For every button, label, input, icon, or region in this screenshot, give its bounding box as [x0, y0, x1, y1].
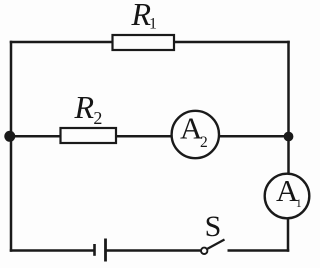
wire right upper vertical (top corner to node B): [287, 41, 290, 136]
svg-text:R: R: [74, 89, 95, 125]
wire right middle vertical (node B to ammeter A1): [287, 136, 290, 175]
switch S blade: [207, 240, 225, 250]
svg-text:2: 2: [93, 108, 102, 128]
resistor R1: [113, 35, 175, 50]
node A (left junction dot): [4, 131, 15, 142]
wire top horizontal: [10, 41, 290, 44]
wire bottom right (switch to corner): [228, 249, 290, 252]
wire middle branch left (node A to ammeter A2): [11, 135, 172, 138]
battery cell (short negative plate): [93, 244, 96, 256]
node B (right junction dot): [284, 132, 294, 142]
battery cell (long positive plate): [104, 239, 107, 262]
ammeter A1: [265, 174, 310, 219]
wire middle branch right (ammeter A2 to node B): [219, 135, 289, 138]
ammeter A2: [172, 111, 219, 158]
svg-text:S: S: [205, 210, 222, 243]
wire bottom middle (battery to switch): [106, 249, 201, 252]
wire right lower vertical (ammeter A1 to bottom corner): [287, 217, 290, 252]
wire left vertical: [10, 41, 13, 252]
switch S pivot circle: [201, 248, 207, 254]
svg-text:2: 2: [200, 134, 208, 151]
resistor R2: [61, 128, 117, 143]
svg-text:1: 1: [296, 196, 302, 210]
wire bottom left (corner to battery): [10, 249, 94, 252]
svg-text:1: 1: [149, 16, 157, 33]
